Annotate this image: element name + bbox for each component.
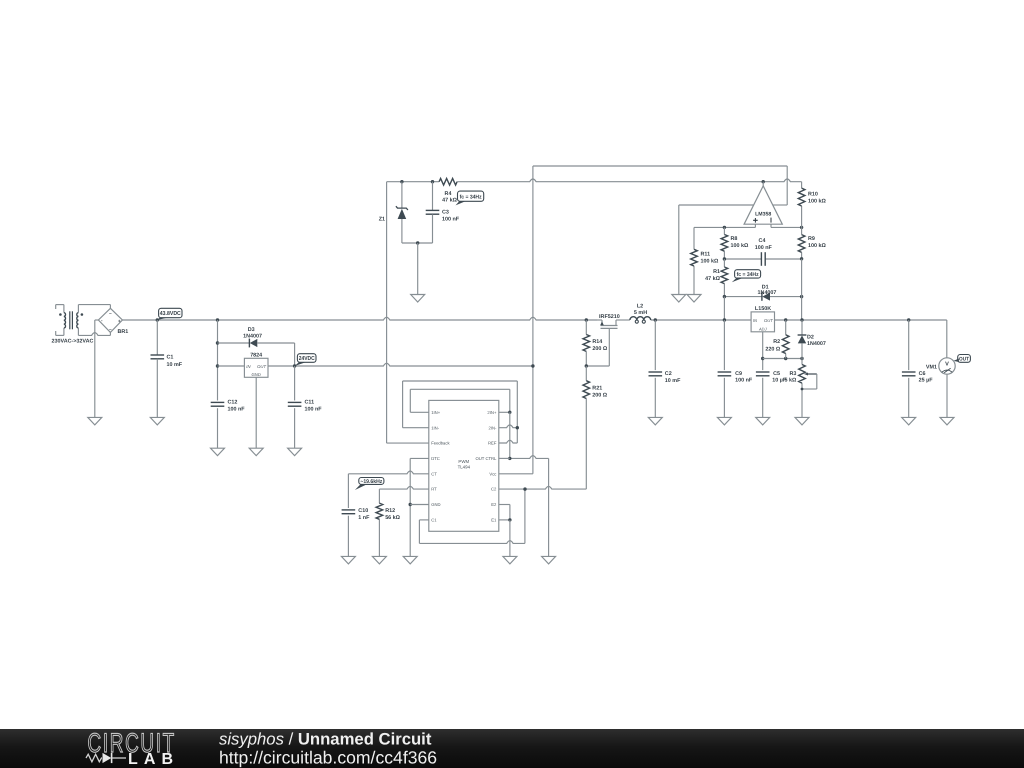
- svg-text:200 Ω: 200 Ω: [592, 346, 607, 352]
- svg-text:sisyphos / Unnamed Circuit: sisyphos / Unnamed Circuit: [219, 730, 432, 749]
- svg-text:Feedback: Feedback: [431, 441, 450, 446]
- svg-text:C2: C2: [665, 371, 672, 377]
- svg-text:C1: C1: [431, 518, 437, 523]
- svg-text:1 nF: 1 nF: [358, 515, 370, 521]
- svg-text:220 Ω: 220 Ω: [765, 347, 780, 353]
- svg-text:DTC: DTC: [431, 456, 440, 461]
- svg-text:+: +: [118, 318, 121, 323]
- svg-text:5 mH: 5 mH: [634, 310, 647, 316]
- svg-text:C6: C6: [919, 371, 926, 377]
- svg-text:2IN+: 2IN+: [487, 410, 497, 415]
- svg-text:R12: R12: [385, 508, 395, 514]
- svg-text:L2: L2: [637, 304, 643, 310]
- svg-text:OUT: OUT: [257, 364, 266, 369]
- svg-text:100 kΩ: 100 kΩ: [701, 259, 719, 265]
- svg-text:OUT CTRL: OUT CTRL: [476, 456, 498, 461]
- svg-text:R21: R21: [592, 386, 602, 392]
- svg-text:47 kΩ: 47 kΩ: [705, 276, 720, 282]
- svg-text:100 nF: 100 nF: [305, 407, 323, 413]
- svg-text:1IN-: 1IN-: [431, 425, 440, 430]
- svg-text:~: ~: [109, 327, 112, 332]
- svg-text:E2: E2: [491, 502, 497, 507]
- svg-text:ADJ: ADJ: [758, 326, 768, 331]
- svg-text:BR1: BR1: [118, 329, 129, 335]
- svg-text:230VAC->32VAC: 230VAC->32VAC: [52, 338, 94, 344]
- svg-text:V: V: [945, 361, 949, 367]
- svg-text:C11: C11: [305, 400, 315, 406]
- svg-text:C9: C9: [735, 371, 742, 377]
- svg-text:OUT: OUT: [959, 357, 970, 363]
- svg-text:C1: C1: [167, 355, 174, 361]
- svg-text:C12: C12: [228, 400, 238, 406]
- svg-text:7824: 7824: [250, 353, 262, 359]
- svg-text:R3: R3: [790, 371, 797, 377]
- svg-text:R8: R8: [731, 236, 738, 242]
- svg-text:1N4007: 1N4007: [758, 290, 777, 296]
- svg-text:100 nF: 100 nF: [228, 407, 246, 413]
- svg-text:OUT: OUT: [764, 318, 773, 323]
- svg-text:100 kΩ: 100 kΩ: [731, 243, 749, 249]
- svg-text:Vcc: Vcc: [489, 471, 496, 476]
- svg-text:Z1: Z1: [379, 217, 385, 223]
- svg-text:IRF5210: IRF5210: [599, 314, 620, 320]
- svg-text:1N4007: 1N4007: [807, 341, 826, 347]
- svg-text:5 kΩ: 5 kΩ: [785, 378, 797, 384]
- svg-text:C3: C3: [442, 210, 449, 216]
- svg-text:PWM: PWM: [458, 459, 469, 464]
- svg-text:~19.6kHz: ~19.6kHz: [360, 479, 382, 485]
- svg-text:C5: C5: [773, 371, 780, 377]
- svg-text:~: ~: [109, 311, 112, 316]
- svg-text:R4: R4: [445, 191, 452, 197]
- svg-text:47 kΩ: 47 kΩ: [442, 198, 457, 204]
- svg-text:C4: C4: [759, 238, 766, 244]
- svg-text:VM1: VM1: [926, 364, 937, 370]
- svg-text:C2: C2: [491, 487, 497, 492]
- svg-text:100 kΩ: 100 kΩ: [808, 243, 826, 249]
- svg-text:http://circuitlab.com/cc4f366: http://circuitlab.com/cc4f366: [219, 748, 437, 768]
- svg-text:100 nF: 100 nF: [755, 245, 773, 251]
- svg-text:25 µF: 25 µF: [919, 378, 934, 384]
- svg-text:GND: GND: [251, 372, 260, 377]
- svg-text:TL494: TL494: [458, 465, 471, 470]
- svg-text:R14: R14: [592, 339, 602, 345]
- svg-text:E1: E1: [491, 518, 497, 523]
- svg-text:10 µF: 10 µF: [772, 378, 787, 384]
- svg-text:100 nF: 100 nF: [735, 378, 753, 384]
- svg-text:10 mF: 10 mF: [167, 362, 183, 368]
- svg-text:100 nF: 100 nF: [442, 216, 460, 222]
- svg-text:RT: RT: [431, 487, 437, 492]
- svg-text:R1: R1: [713, 269, 720, 275]
- svg-text:REF: REF: [488, 441, 497, 446]
- svg-text:fc = 34Hz: fc = 34Hz: [460, 194, 482, 200]
- svg-text:C10: C10: [358, 508, 368, 514]
- svg-text:43.8VDC: 43.8VDC: [160, 310, 182, 317]
- svg-text:200 Ω: 200 Ω: [592, 393, 607, 399]
- svg-text:R11: R11: [701, 252, 711, 258]
- svg-text:L150K: L150K: [755, 306, 771, 312]
- svg-text:fc = 34Hz: fc = 34Hz: [737, 272, 759, 278]
- svg-text:100 kΩ: 100 kΩ: [808, 198, 826, 204]
- svg-text:D2: D2: [807, 334, 814, 340]
- svg-text:24VDC: 24VDC: [299, 355, 316, 362]
- svg-text:R9: R9: [808, 236, 815, 242]
- svg-text:1IN+: 1IN+: [431, 410, 441, 415]
- svg-text:1N4007: 1N4007: [243, 333, 262, 339]
- svg-text:GND: GND: [431, 502, 440, 507]
- svg-text:10 mF: 10 mF: [665, 378, 681, 384]
- svg-text:CT: CT: [431, 471, 437, 476]
- svg-text:D3: D3: [248, 327, 255, 333]
- svg-text:R2: R2: [773, 339, 780, 345]
- svg-text:R10: R10: [808, 191, 818, 197]
- svg-text:56 kΩ: 56 kΩ: [385, 515, 400, 521]
- svg-text:2IN-: 2IN-: [488, 425, 497, 430]
- svg-text:LM358: LM358: [755, 211, 771, 217]
- svg-text:LAB: LAB: [128, 751, 173, 768]
